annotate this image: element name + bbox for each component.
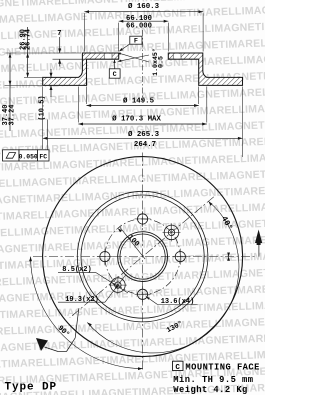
svg-text:66.100: 66.100 [126, 15, 152, 23]
svg-text:Min. TH 9.5 mm: Min. TH 9.5 mm [173, 375, 253, 385]
svg-text:Ø 149.5: Ø 149.5 [123, 96, 155, 105]
svg-text:Type DP: Type DP [5, 382, 58, 394]
svg-text:Weight 4.2 Kg: Weight 4.2 Kg [173, 385, 247, 395]
svg-text:66.000: 66.000 [126, 23, 152, 31]
svg-text:MOUNTING FACE: MOUNTING FACE [185, 363, 259, 373]
svg-text:F: F [134, 38, 138, 46]
svg-text:264.7: 264.7 [134, 141, 156, 149]
svg-text:0.5: 0.5 [158, 56, 165, 68]
svg-text:Ø 160.3: Ø 160.3 [128, 2, 160, 11]
svg-text:C: C [175, 364, 180, 372]
svg-text:FC: FC [39, 153, 47, 160]
svg-text:26.74: 26.74 [25, 29, 33, 50]
svg-text:19.3(x2): 19.3(x2) [65, 296, 99, 304]
svg-text:Ø 170.3 MAX: Ø 170.3 MAX [112, 115, 161, 124]
svg-text:Ø 265.3: Ø 265.3 [128, 130, 160, 139]
svg-text:7: 7 [57, 30, 61, 38]
svg-text:C: C [113, 71, 117, 79]
svg-text:0.050: 0.050 [19, 153, 38, 160]
svg-text:37.24: 37.24 [9, 104, 17, 125]
